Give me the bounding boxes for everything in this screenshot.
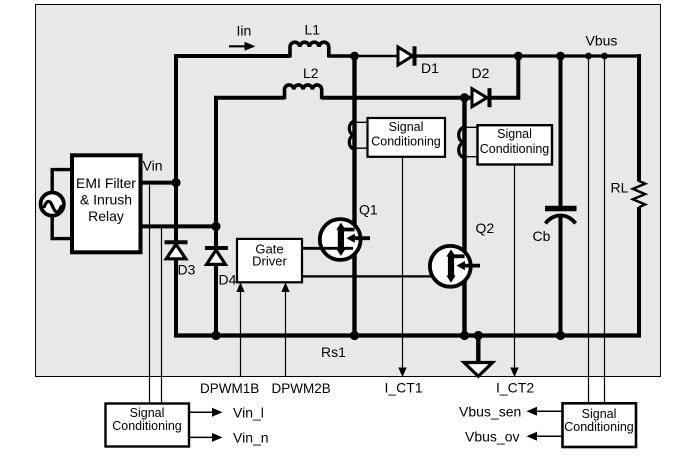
node Cb to rail [556,331,565,340]
svg-text:Driver: Driver [252,254,287,269]
wire DPWM2B input [285,291,287,377]
node D2 output on Vbus rail [514,52,523,61]
wire top rail after L1 [329,54,355,58]
wire Q1 leg vertical [352,56,356,336]
capacitor Cb [545,209,577,224]
svg-text:D1: D1 [421,60,439,76]
node Vin lower [211,222,220,231]
diode D1 [398,46,415,65]
svg-text:Rs1: Rs1 [321,344,346,360]
wire Vin upper (EMI to node) [141,181,177,185]
inductor L2 [285,85,322,99]
svg-text:Vin: Vin [143,158,163,174]
wire bottom return rail Rs1 [174,333,641,337]
wire Cb branch lower [559,216,563,336]
wire Vin lower (EMI to node) [141,224,217,228]
wire gate driver to Q1 gate [302,247,353,250]
svg-text:D3: D3 [178,262,196,278]
svg-text:DPWM1B: DPWM1B [200,381,259,396]
wire L2 branch horizontal [214,96,285,100]
wire L2 to D2 anode [322,96,465,100]
svg-text:DPWM2B: DPWM2B [272,381,331,396]
wire Vin_l output [189,411,214,413]
arrow DPWM1B [236,282,244,292]
wire RL branch lower [637,207,641,338]
sense wire Vbus 1 [588,56,590,404]
current transformer CT2 [459,127,465,157]
wire D2 cathode up to Vbus rail [490,56,519,98]
transistor Q2 [430,246,480,287]
svg-text:I_CT1: I_CT1 [385,380,423,396]
wire Vbus_ov output [535,435,563,437]
wire CT1 stubs to signal conditioning [356,122,368,148]
wire to D1 anode [355,55,399,57]
svg-text:Vin_l: Vin_l [233,405,264,421]
svg-text:D4: D4 [219,272,237,288]
sense wire Vin_n tap [161,226,163,403]
wire Cb branch upper [559,56,563,206]
wire RL branch upper [637,54,641,182]
svg-text:Conditioning: Conditioning [480,142,550,156]
svg-text:Vbus_sen: Vbus_sen [459,404,521,420]
node Q1 source to rail [350,331,359,340]
svg-text:Vbus: Vbus [586,33,618,49]
inductor L1 [290,42,329,57]
arrow DPWM2B [281,282,289,292]
svg-text:Q2: Q2 [476,220,495,236]
wire top rail D1 to Vbus corner [415,54,641,57]
transistor Q1 [320,219,370,260]
wire AC top to EMI box [52,170,72,193]
sense wire Vbus 2 [604,56,606,404]
signal conditioning box 3 (Vin sense) [106,404,190,447]
node D4 to rail [211,331,220,340]
svg-text:D2: D2 [472,65,490,81]
node Q1 drain tap [350,52,359,61]
svg-text:Q1: Q1 [359,202,378,218]
svg-text:Iin: Iin [237,23,252,39]
node ground tap [474,331,483,340]
svg-text:Conditioning: Conditioning [371,135,441,149]
wire DPWM1B input [240,291,242,377]
current transformer CT1 [349,121,354,149]
wire CT2 stubs to signal conditioning [466,127,478,156]
wire left branch vertical (L1 feed / D3 leg) [174,54,178,336]
wire Vin_n output [189,436,214,438]
arrow Vbus_ov [527,432,538,441]
wire Vbus_sen output [535,410,563,412]
node Vbus sense tap 2 [601,53,608,60]
svg-text:Vbus_ov: Vbus_ov [465,429,519,445]
diode D3 [165,242,188,258]
arrow Iin [229,42,256,51]
signal conditioning box 4 (Vbus sense) [563,403,637,447]
ground [464,336,493,377]
gate driver box U1 [237,239,302,282]
sense wire Vin_l tap [149,183,151,404]
svg-text:L2: L2 [303,65,319,81]
svg-text:Vin_n: Vin_n [233,430,269,446]
arrow I_CT2 [510,368,518,378]
wire I_CT2 output [514,165,516,370]
node Q2 source to rail [460,331,469,340]
node Vbus sense tap 1 [585,53,592,60]
wire I_CT1 output [402,157,404,369]
diode D4 [205,248,228,264]
node D2 anode [460,93,469,102]
resistor RL [633,181,645,207]
svg-text:Conditioning: Conditioning [564,420,634,434]
wire AC bottom to EMI box [52,215,72,238]
svg-text:& Inrush: & Inrush [80,192,132,208]
svg-text:Signal: Signal [497,127,532,141]
AC source V1 [41,193,64,216]
arrow Vin_l [212,408,223,417]
signal conditioning box 2 (CT2) [478,125,553,164]
wire top rail left segment [174,54,290,58]
svg-text:Conditioning: Conditioning [112,419,182,433]
wire Q2 leg vertical [462,98,466,336]
svg-text:Cb: Cb [533,228,551,244]
diode D2 [465,88,490,107]
arrow Vbus_sen [527,407,538,416]
svg-text:Signal: Signal [389,120,424,134]
svg-text:L1: L1 [305,22,321,38]
svg-text:I_CT2: I_CT2 [496,380,534,396]
svg-text:Relay: Relay [88,208,124,224]
wire gate driver to Q2 gate [302,275,463,277]
svg-text:RL: RL [611,180,629,196]
arrow Vin_n [212,433,223,442]
svg-text:Signal: Signal [130,406,165,420]
svg-text:EMI Filter: EMI Filter [76,175,136,191]
svg-text:Signal: Signal [582,407,617,421]
wire D4 branch vertical (L2 feed / D4 leg) [214,98,218,336]
node Vin upper [171,178,180,187]
schematic background panel [36,5,661,377]
signal conditioning box 1 (CT1) [368,118,446,157]
node Cb tap [556,52,565,61]
arrow I_CT1 [398,368,406,378]
EMI Filter & Inrush Relay box [72,155,141,252]
